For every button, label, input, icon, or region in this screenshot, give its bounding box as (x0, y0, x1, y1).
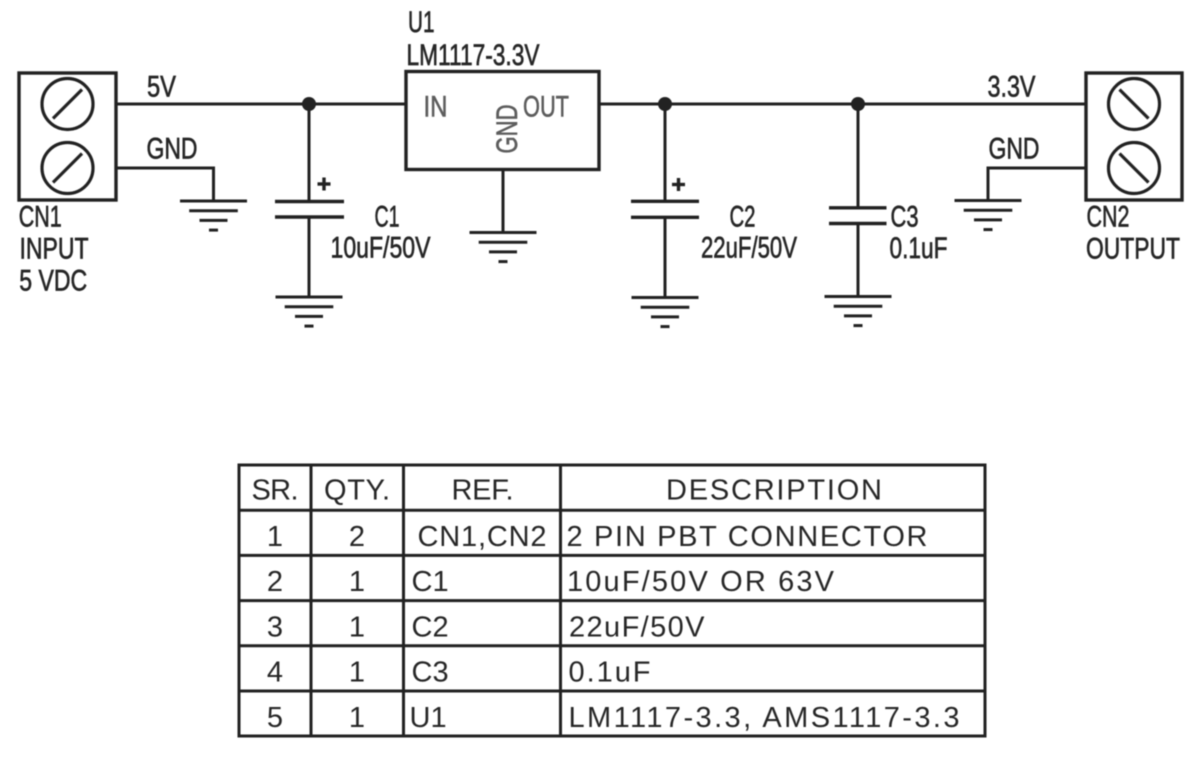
connector CN1 body (19, 73, 116, 200)
svg-text:0.1uF: 0.1uF (890, 232, 948, 265)
svg-text:10uF/50V: 10uF/50V (331, 232, 431, 265)
ground symbol (C3) (825, 297, 892, 326)
capacitor C1 plates (275, 200, 344, 203)
wire C3 top (857, 104, 860, 209)
op-amp U1 regulator box (406, 72, 599, 170)
svg-text:5: 5 (267, 702, 283, 734)
BOM table grid (239, 465, 985, 736)
svg-text:1: 1 (349, 702, 365, 734)
capacitor C3 plates (829, 206, 887, 209)
svg-text:3.3V: 3.3V (988, 71, 1036, 104)
svg-text:5V: 5V (147, 71, 176, 104)
svg-text:2 PIN PBT CONNECTOR: 2 PIN PBT CONNECTOR (567, 521, 928, 553)
connector CN2 screw terminal pin 1 (1109, 79, 1160, 130)
svg-text:SR.: SR. (252, 475, 299, 507)
svg-text:GND: GND (147, 133, 198, 166)
svg-text:C3: C3 (891, 201, 919, 234)
svg-text:5 VDC: 5 VDC (19, 265, 87, 298)
node junction at C1 (302, 97, 316, 111)
connector CN2 body (1086, 73, 1182, 200)
svg-text:C2: C2 (730, 201, 756, 234)
wire C1 bottom (308, 217, 311, 297)
svg-text:C2: C2 (412, 611, 449, 643)
svg-text:U1: U1 (408, 6, 435, 39)
ground symbol (U1) (470, 233, 537, 262)
svg-text:QTY.: QTY. (324, 475, 390, 507)
connector CN2 screw terminal pin 2 (1109, 143, 1160, 194)
connector CN1 screw terminal pin 2 (42, 143, 93, 194)
svg-text:1: 1 (349, 657, 365, 689)
svg-text:1: 1 (349, 566, 365, 598)
svg-text:2: 2 (267, 566, 283, 598)
svg-text:LM1117-3.3V: LM1117-3.3V (407, 39, 540, 72)
svg-text:0.1uF: 0.1uF (569, 657, 651, 689)
node junction at C2 (658, 97, 672, 111)
svg-text:DESCRIPTION: DESCRIPTION (666, 475, 882, 507)
svg-text:U1: U1 (410, 702, 447, 734)
wire C2 bottom (664, 217, 667, 297)
svg-text:C1: C1 (375, 201, 400, 234)
svg-text:22uF/50V: 22uF/50V (569, 611, 705, 643)
wire C2 top (664, 104, 667, 203)
wire U1 GND pin (502, 170, 505, 233)
capacitor C2 plates (631, 200, 699, 203)
svg-text:OUTPUT: OUTPUT (1086, 233, 1180, 266)
ground symbol (C1) (276, 297, 343, 326)
svg-text:1: 1 (349, 611, 365, 643)
ground symbol (CN2) (955, 201, 1022, 230)
svg-text:22uF/50V: 22uF/50V (701, 232, 797, 265)
svg-text:C3: C3 (412, 657, 449, 689)
wire CN1 pin2 to ground (116, 167, 215, 170)
svg-text:CN2: CN2 (1087, 200, 1130, 233)
ground symbol (C2) (632, 298, 699, 327)
wire C3 bottom (857, 224, 860, 297)
svg-text:3: 3 (267, 611, 283, 643)
svg-text:C1: C1 (412, 566, 449, 598)
capacitor C1 polarity + (318, 178, 331, 191)
svg-text:OUT: OUT (523, 91, 569, 124)
node junction at C3 (851, 97, 865, 111)
svg-text:GND: GND (491, 105, 524, 154)
svg-text:INPUT: INPUT (20, 233, 89, 266)
ground symbol (CN1) (180, 201, 247, 230)
svg-text:4: 4 (267, 657, 283, 689)
svg-text:IN: IN (424, 91, 448, 124)
capacitor C2 polarity + (672, 178, 685, 191)
svg-text:CN1,CN2: CN1,CN2 (418, 521, 547, 553)
wire OUT rail U1 to CN2 (599, 103, 1086, 106)
wire C1 top (308, 104, 311, 203)
svg-text:REF.: REF. (452, 475, 514, 507)
svg-text:1: 1 (267, 521, 283, 553)
wire 5V rail CN1 to U1 IN (116, 103, 406, 106)
svg-text:GND: GND (989, 133, 1040, 166)
wire CN2 pin2 to ground (987, 167, 1087, 170)
connector CN1 screw terminal pin 1 (42, 79, 93, 130)
svg-text:CN1: CN1 (19, 200, 62, 233)
svg-text:2: 2 (349, 521, 365, 553)
